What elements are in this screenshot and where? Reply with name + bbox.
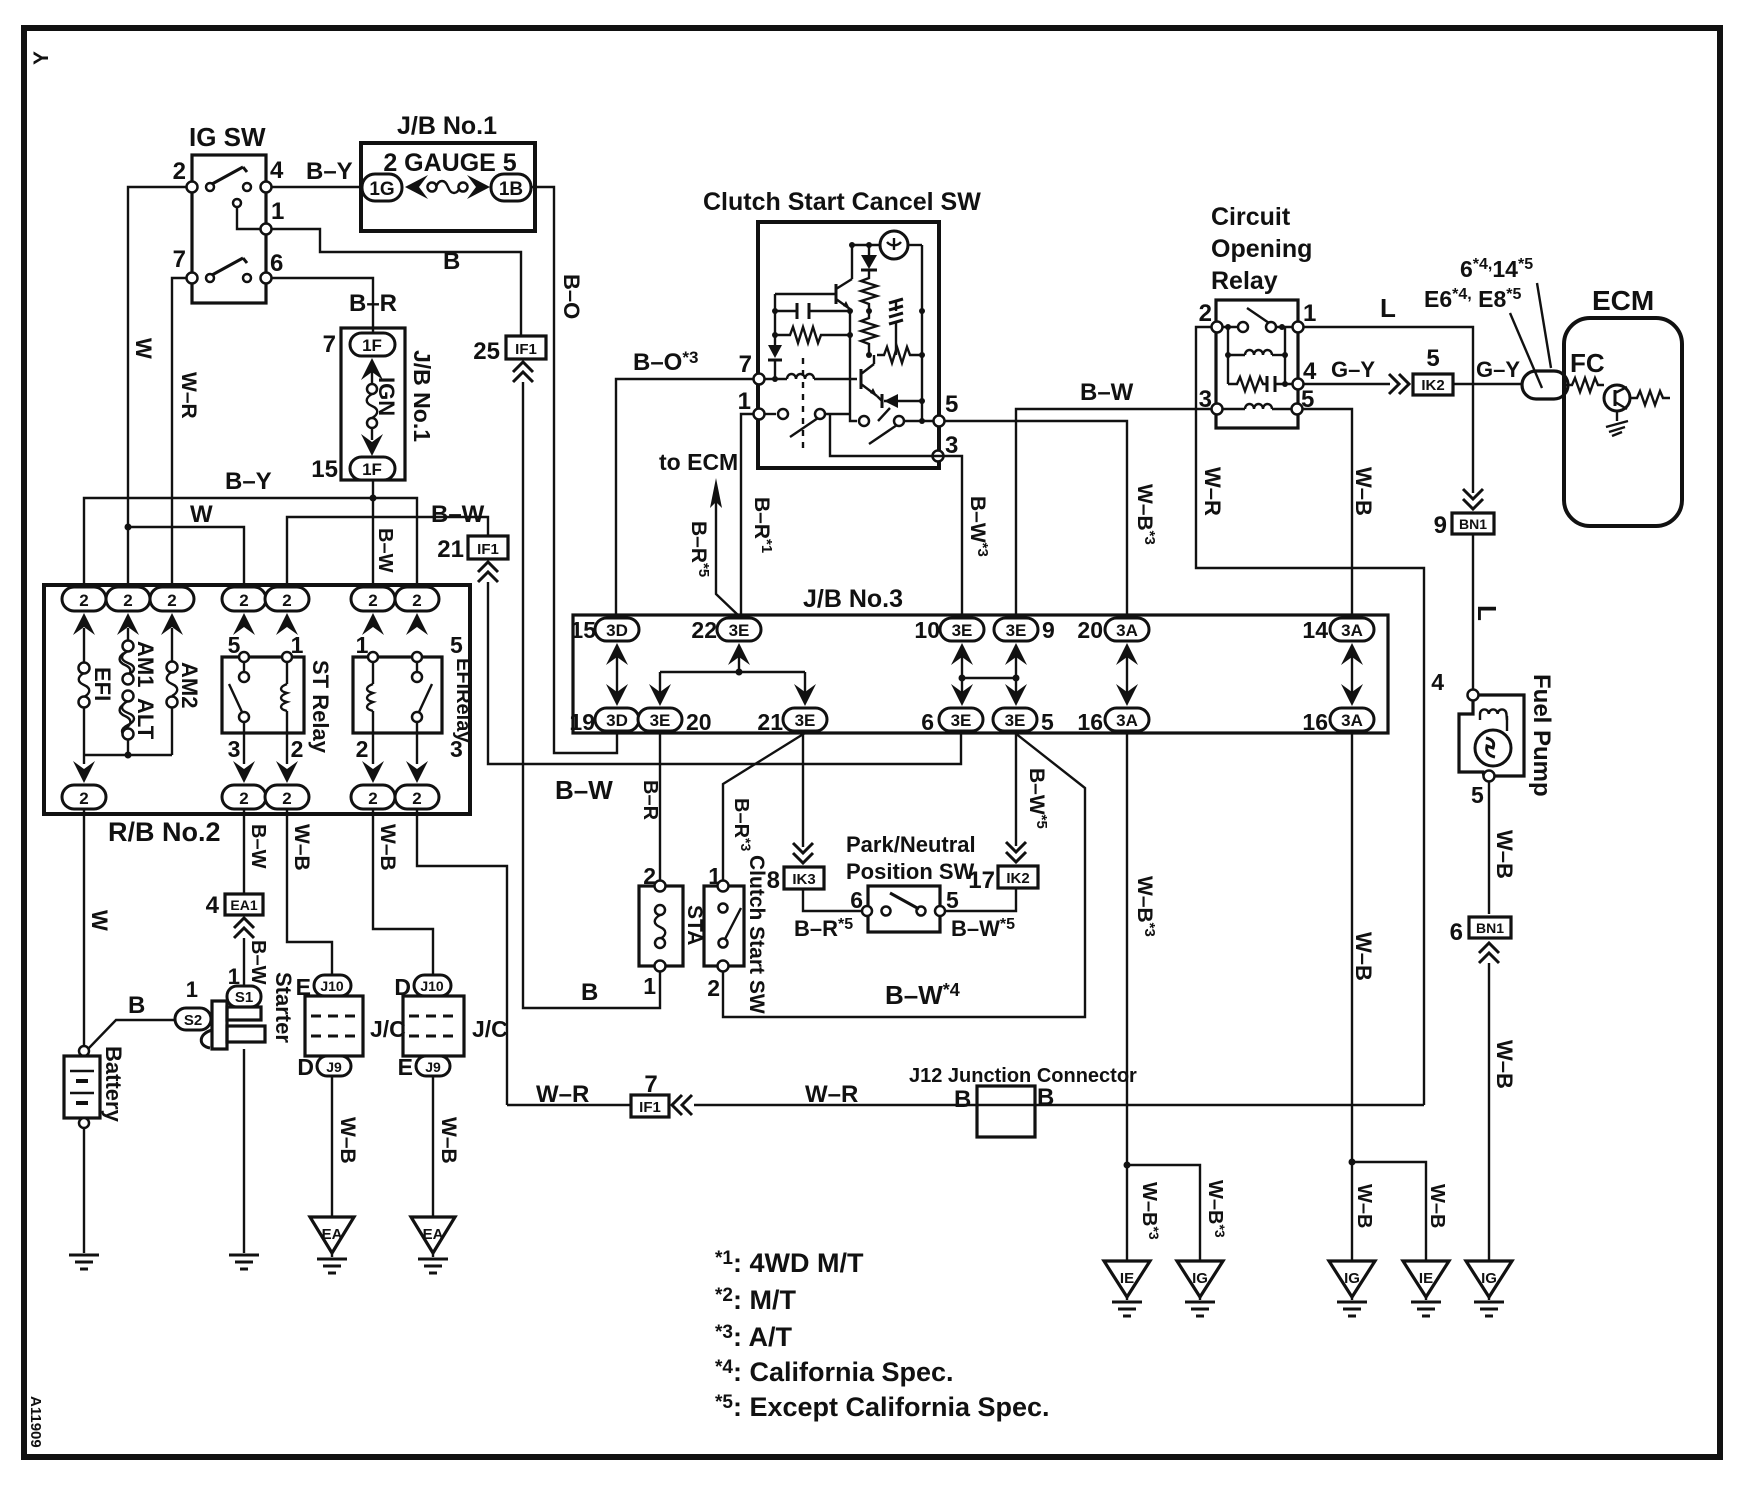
CSC right rail mid link [895, 330, 897, 355]
connector 7 IF1 [631, 1095, 669, 1117]
wire B-W to EA1 [243, 809, 245, 894]
svg-text:9: 9 [1042, 617, 1055, 643]
EFI Relay pin 5 terminal [412, 652, 422, 662]
connector 21 IF1 [468, 536, 508, 559]
svg-text:14: 14 [1302, 617, 1328, 643]
GAUGE fuse left arrow [405, 175, 428, 199]
BN1 9 chevrons [1463, 489, 1483, 509]
CSC hatched resistor [895, 301, 897, 311]
wire W-R from relay pin 2 [1196, 327, 1424, 1105]
CSC capacitor row [775, 310, 797, 312]
connector J10 first [314, 975, 351, 996]
double arrow 20/16 3A [1126, 652, 1128, 697]
fuel pump coil [1480, 709, 1507, 720]
ECM box [1564, 318, 1682, 526]
svg-text:S2: S2 [184, 1012, 202, 1029]
svg-text:1: 1 [356, 632, 369, 658]
ground IG first [1177, 1261, 1223, 1297]
svg-text:21: 21 [757, 709, 783, 735]
STA fuse [655, 905, 665, 915]
ST Relay switch [243, 662, 245, 672]
svg-text:2: 2 [368, 591, 377, 610]
relay pin 4 terminal [1293, 379, 1304, 390]
svg-text:16: 16 [1077, 709, 1103, 735]
svg-text:3E: 3E [795, 711, 816, 730]
svg-text:2: 2 [282, 591, 291, 610]
connector 1F bottom [350, 457, 395, 480]
svg-text:ALT: ALT [133, 698, 158, 740]
svg-text:3E: 3E [1006, 621, 1027, 640]
IK2 5 chevrons [1389, 374, 1409, 394]
svg-text:1: 1 [738, 388, 751, 415]
svg-text:J/B No.1: J/B No.1 [409, 350, 435, 442]
svg-text:FC: FC [1570, 348, 1605, 378]
svg-text:B: B [128, 992, 145, 1019]
connector J9 first [317, 1056, 351, 1076]
R/B connector 2 bottom ST2 [265, 785, 309, 809]
wire B-Y from IG SW pin 4 to J/B No.1 1G [271, 186, 362, 188]
connector BN1 lower [1469, 917, 1511, 938]
wire B from IF1 25 down to STA pin 1 [523, 382, 660, 1008]
IGN fuse arrow down [371, 428, 373, 440]
svg-text:17: 17 [968, 867, 995, 894]
svg-text:4: 4 [1431, 669, 1444, 695]
svg-text:W: W [190, 501, 213, 528]
svg-text:R/B No.2: R/B No.2 [108, 817, 221, 847]
ground IE first [1104, 1261, 1150, 1297]
svg-text:EFI: EFI [90, 667, 115, 701]
R/B connector 2 top EFI1 [351, 587, 395, 611]
wire from IGN 1F to R/B No.2 [372, 480, 374, 587]
svg-text:4: 4 [1303, 358, 1317, 385]
svg-text:16: 16 [1302, 709, 1328, 735]
svg-text:W–B: W–B [376, 824, 399, 871]
arrows down from ST Relay [243, 733, 245, 764]
svg-text:B–Y: B–Y [306, 158, 353, 185]
to ECM arrow [716, 500, 739, 616]
relay coil upper [1227, 327, 1229, 355]
connector J9 second [416, 1056, 450, 1076]
svg-text:BN1: BN1 [1476, 920, 1504, 936]
connector (3E)20 [638, 708, 682, 731]
jumper between 3E columns [962, 677, 1016, 679]
connector 1F top [350, 333, 395, 356]
svg-text:J10: J10 [320, 978, 344, 994]
arrow up into 22(3E) [738, 654, 740, 672]
svg-text:W: W [131, 338, 156, 359]
wire from R/B EFI3 to W-R run [417, 809, 507, 1105]
svg-text:to ECM: to ECM [659, 449, 738, 475]
svg-text:2: 2 [356, 736, 369, 762]
relay coil lower [1221, 408, 1245, 410]
ST Relay pin 1 terminal [282, 652, 292, 662]
ground IG second [1329, 1261, 1375, 1297]
svg-text:Clutch Start Cancel SW: Clutch Start Cancel SW [703, 188, 981, 216]
wire G-Y from relay pin 4 to IK2 [1303, 383, 1390, 385]
junction connector J12 [977, 1086, 1035, 1137]
svg-text:6: 6 [1450, 919, 1463, 946]
IG SW switch AM contacts [206, 183, 214, 191]
svg-text:5: 5 [946, 887, 959, 913]
svg-text:Circuit: Circuit [1211, 203, 1291, 231]
IF1 25 chevrons [513, 362, 533, 382]
W-B ground branch right [1352, 1162, 1426, 1261]
EFI Relay pin 1 terminal [368, 652, 378, 662]
Clutch Start SW contacts [719, 904, 728, 913]
wire B-W from IF1 21 to J/B No.3 6(3E) [488, 582, 961, 764]
svg-text:Fuel Pump: Fuel Pump [1528, 674, 1555, 797]
svg-text:4: 4 [270, 157, 284, 184]
CSC left switch [764, 413, 776, 415]
IG SW pin 7 terminal [187, 273, 198, 284]
junction B-Y / IGN [370, 495, 377, 502]
STA pin 1 terminal [655, 961, 666, 972]
IG SW pin 1 contact [233, 199, 241, 207]
connector (3E)5 [993, 708, 1037, 731]
svg-text:B–W: B–W [374, 528, 396, 573]
svg-text:10: 10 [914, 617, 940, 643]
svg-text:W–B: W–B [437, 1117, 460, 1164]
junction W branch [125, 524, 132, 531]
svg-text:W–B: W–B [1351, 932, 1376, 981]
IGN fuse element [367, 384, 377, 394]
splice oval [1522, 371, 1568, 399]
wire W-B J9 second to EA ground [432, 1076, 434, 1217]
connector 1G [362, 174, 402, 201]
wire from CSC pin 5 to 20(3A) [944, 421, 1127, 618]
svg-text:2: 2 [173, 158, 186, 185]
svg-text:2: 2 [368, 789, 377, 808]
IG SW box [192, 155, 266, 303]
starter terminal S2 [175, 1008, 211, 1030]
wire W-B from R/B to J/C E-J10 [287, 809, 332, 975]
svg-text:IE: IE [1120, 1270, 1134, 1287]
svg-text:3E: 3E [650, 711, 671, 730]
svg-text:2: 2 [412, 591, 421, 610]
CSC Q2 collector link [873, 355, 875, 364]
CSC Q1 collector rail [851, 245, 853, 279]
relay switch [1221, 326, 1238, 328]
IG SW switch AM arm [212, 167, 243, 184]
R/B connector 2 top EFI [62, 587, 106, 611]
svg-text:J9: J9 [425, 1059, 441, 1075]
CSC left rail [774, 294, 776, 345]
svg-text:D: D [297, 1054, 314, 1080]
wire B-R*1 from CSC pin 1 to 22(3E) [741, 414, 753, 618]
wire W-B from R/B to J/C D-J10 [373, 809, 433, 975]
svg-text:1B: 1B [499, 179, 523, 200]
battery top terminal [79, 1046, 89, 1056]
svg-text:2: 2 [167, 591, 176, 610]
svg-text:3A: 3A [1116, 711, 1138, 730]
svg-text:BN1: BN1 [1459, 516, 1487, 532]
fuel pump pin 5 terminal [1484, 771, 1495, 782]
svg-text:Clutch Start SW: Clutch Start SW [745, 855, 768, 1014]
svg-text:EA: EA [423, 1226, 444, 1243]
svg-text:3A: 3A [1341, 711, 1363, 730]
STA pin 2 terminal [655, 881, 666, 892]
svg-text:IGN: IGN [374, 377, 399, 416]
fuse EFI [83, 628, 85, 663]
svg-text:15: 15 [311, 456, 338, 483]
svg-text:6: 6 [270, 250, 283, 277]
CSC right switch [850, 414, 857, 421]
wire L from relay pin 1 to BN1 9 [1303, 327, 1473, 493]
svg-text:3: 3 [228, 736, 241, 762]
svg-text:IE: IE [1419, 1270, 1433, 1287]
svg-text:W–B: W–B [1353, 1184, 1375, 1228]
svg-text:15: 15 [570, 617, 596, 643]
ground IE second [1403, 1261, 1449, 1297]
internal jumper 3E [660, 671, 805, 673]
svg-text:B–R: B–R [349, 290, 397, 317]
svg-text:IG: IG [1481, 1270, 1497, 1287]
svg-text:W: W [87, 910, 112, 931]
svg-text:5: 5 [1471, 782, 1484, 808]
svg-text:3: 3 [1199, 386, 1212, 413]
svg-text:3D: 3D [606, 711, 628, 730]
svg-text:7: 7 [739, 351, 752, 378]
connector EA1 [225, 894, 263, 915]
wire battery to ground [83, 1128, 85, 1253]
wire W-R to IF1 7 [507, 1104, 632, 1106]
wire B-W EA1 to starter [243, 938, 245, 988]
svg-text:2: 2 [412, 789, 421, 808]
CSC coil [764, 378, 787, 380]
svg-text:EFIRelay: EFIRelay [452, 658, 474, 743]
CSC lamp [880, 231, 908, 259]
wire B-O from 1B down to J/B No.3 19(3D) [531, 187, 617, 753]
svg-text:IK3: IK3 [792, 871, 815, 888]
wire starter to ground [243, 1049, 245, 1253]
svg-text:W–B: W–B [1426, 1184, 1448, 1228]
CSC pin 3 terminal [933, 451, 944, 462]
fuse AM2 [171, 628, 173, 662]
double arrow 9/5 3E [1015, 652, 1017, 697]
J/B No.1 IGN box [341, 328, 405, 480]
connector IK2 right [1413, 374, 1453, 395]
Clutch Start SW arm [725, 908, 741, 939]
svg-text:W–R: W–R [177, 372, 200, 419]
CSC pin 7 terminal [754, 374, 765, 385]
junction connector J/C first [305, 996, 363, 1056]
svg-text:3D: 3D [606, 621, 628, 640]
svg-text:G–Y: G–Y [1331, 357, 1375, 382]
CSC dashed linkage [802, 358, 804, 452]
arrows down from EFI Relay [372, 733, 374, 764]
svg-text:3E: 3E [951, 711, 972, 730]
ECM internal ground [1616, 411, 1618, 421]
svg-text:J10: J10 [420, 978, 444, 994]
svg-text:B–Y: B–Y [225, 468, 272, 495]
svg-text:7: 7 [323, 331, 336, 358]
CSC transistor Q1 [835, 284, 838, 304]
svg-text:21: 21 [437, 536, 464, 563]
svg-text:J9: J9 [326, 1059, 342, 1075]
wire B-R*3 from 21(3E) to Clutch Start SW [723, 733, 805, 886]
svg-text:2 GAUGE 5: 2 GAUGE 5 [383, 149, 516, 177]
svg-text:B–W: B–W [1080, 379, 1134, 406]
fuse AM1 ALT [127, 628, 129, 641]
svg-text:9: 9 [1434, 512, 1447, 539]
svg-text:Park/Neutral: Park/Neutral [846, 832, 976, 857]
svg-text:EA1: EA1 [230, 897, 257, 913]
svg-text:IF1: IF1 [515, 341, 537, 358]
svg-text:W–B: W–B [336, 1117, 359, 1164]
svg-text:IG: IG [1344, 1270, 1360, 1287]
svg-text:ST Relay: ST Relay [308, 660, 333, 754]
starter body [212, 1001, 227, 1049]
IGN fuse arrow up [361, 358, 383, 380]
Fuel Pump box [1459, 695, 1524, 776]
R/B connector 2 top EFI5 [395, 587, 439, 611]
svg-text:5: 5 [450, 632, 463, 658]
svg-text:IG: IG [1192, 1270, 1208, 1287]
svg-text:L: L [1472, 605, 1502, 621]
svg-text:B: B [1037, 1084, 1054, 1111]
svg-text:B–W: B–W [431, 501, 485, 528]
GAUGE fuse right arrow [467, 175, 490, 199]
CSC resistor R2 vertical [861, 271, 877, 311]
IG SW pin 4 terminal [261, 182, 272, 193]
IK2 chevrons [1006, 842, 1026, 862]
starter terminal S1 [227, 986, 261, 1007]
svg-text:1G: 1G [369, 179, 394, 200]
svg-text:W–B: W–B [1492, 830, 1517, 879]
R/B connector 2 top ST5 [222, 587, 266, 611]
CSC right rail [921, 245, 923, 421]
R/B connector 2 bottom EFI2 [351, 785, 395, 809]
svg-text:B–O: B–O [559, 274, 584, 319]
IG SW pin 2 terminal [187, 182, 198, 193]
CSC lamp wires [852, 244, 880, 246]
svg-text:J12 Junction Connector: J12 Junction Connector [909, 1065, 1137, 1087]
arrow down into (3E)20 [659, 672, 661, 696]
wire IK3 to P/N SW pin 6 [803, 889, 862, 911]
svg-text:*4: California Spec.: *4: California Spec. [715, 1357, 954, 1387]
svg-text:*1: 4WD M/T: *1: 4WD M/T [715, 1248, 864, 1278]
R/B connector 2 bottom EFI [62, 785, 106, 809]
wire L from BN1 to fuel pump [1472, 534, 1474, 691]
wire G-Y from IK2 to ECM [1453, 383, 1523, 385]
ST Relay box [222, 657, 304, 733]
svg-text:1: 1 [271, 198, 284, 225]
svg-text:2: 2 [1199, 300, 1212, 327]
wire B-W*5 from (3E)5 to IK2 [1015, 733, 1017, 846]
battery box [64, 1056, 100, 1118]
svg-text:2: 2 [291, 736, 304, 762]
Clutch Start SW pin 1 terminal [718, 881, 729, 892]
P/N SW contacts [882, 907, 891, 916]
wire W-B J9 to EA ground [331, 1076, 333, 1217]
svg-text:B–W: B–W [247, 940, 269, 985]
svg-text:B: B [581, 979, 598, 1006]
CSC transistor Q2 [860, 369, 863, 389]
svg-text:B–W: B–W [555, 775, 613, 805]
svg-text:B: B [954, 1086, 971, 1113]
R/B connector 2 top ST1 [265, 587, 309, 611]
fuel pump motor [1475, 730, 1511, 766]
connector J10 second [414, 975, 451, 996]
svg-text:2: 2 [239, 789, 248, 808]
wire W from IG SW pin 2 down to R/B No.2 [128, 187, 187, 587]
wire W-B*3 from 16(3A) to grounds [1126, 733, 1128, 1261]
CSC mid rail [849, 311, 851, 414]
ECM output resistor [1630, 391, 1670, 405]
ground starter [229, 1255, 259, 1269]
wire B battery to starter S2 [88, 1020, 176, 1049]
svg-text:1: 1 [1303, 300, 1316, 327]
svg-text:Starter: Starter [271, 972, 296, 1043]
IK3 chevrons [793, 843, 813, 863]
relay pin 3 terminal [1212, 404, 1223, 415]
wire B-R from (3E)20 to STA [659, 733, 661, 886]
svg-text:J/C: J/C [472, 1016, 508, 1042]
wire W-B to IG ground [1488, 963, 1490, 1261]
svg-text:2: 2 [79, 789, 88, 808]
svg-text:IF1: IF1 [639, 1099, 661, 1116]
svg-text:3E: 3E [952, 621, 973, 640]
CSC SCR [884, 400, 922, 402]
ground IG third [1466, 1261, 1512, 1297]
CSC pin 5 terminal [934, 416, 945, 427]
svg-text:25: 25 [473, 338, 500, 365]
pointer line 2 [1510, 313, 1542, 388]
svg-text:W–B: W–B [1492, 1040, 1517, 1089]
svg-text:ECM: ECM [1592, 285, 1654, 316]
Circuit Opening Relay box [1216, 300, 1298, 428]
wire B-W*3 from CSC pin 3 to 10(3E) [933, 456, 962, 618]
wire B-O*3 from CSC pin 7 to J/B No.3 15(3D) [616, 379, 753, 618]
arrow down into 21(3E) [804, 672, 806, 696]
P/N SW arm [890, 893, 919, 909]
wire B from IG SW pin 1 to IF1 25 [271, 229, 521, 336]
svg-text:IF1: IF1 [477, 541, 499, 558]
EFI Relay box [353, 657, 442, 733]
svg-text:B: B [443, 248, 460, 275]
svg-text:2: 2 [123, 591, 132, 610]
relay resistor capacitor branch [1227, 355, 1229, 384]
relay pin 1 terminal [1293, 322, 1304, 333]
ECM FC resistor [1566, 378, 1604, 392]
svg-text:Position SW: Position SW [846, 859, 975, 884]
GAUGE fuse element [428, 183, 437, 192]
wire W-R from IG SW pin 7 down to R/B No.2 [172, 278, 187, 587]
svg-text:7: 7 [173, 246, 186, 273]
svg-text:E: E [398, 1054, 413, 1080]
fuse bottom tie wire [84, 754, 172, 756]
IF1 7 chevrons [672, 1095, 692, 1115]
svg-text:2: 2 [707, 975, 720, 1001]
connector IK3 [784, 867, 824, 889]
ST Relay pin 5 terminal [239, 652, 249, 662]
svg-text:B–R: B–R [639, 780, 661, 821]
CSC resistor R4 row [877, 347, 922, 363]
svg-text:*5: Except California Spec.: *5: Except California Spec. [715, 1392, 1050, 1422]
BN1 6 chevrons [1479, 943, 1499, 963]
CSC diode chain rail [868, 245, 870, 255]
svg-text:5: 5 [1041, 709, 1054, 735]
double arrow 14/16 3A [1351, 652, 1353, 697]
arrow down to bottom connector EFI [83, 755, 85, 764]
svg-text:3E: 3E [1005, 711, 1026, 730]
ST Relay coil [286, 662, 288, 684]
svg-text:W–R: W–R [1200, 467, 1225, 516]
wire P/N SW pin5 to IK2 [945, 889, 1016, 911]
svg-text:EA: EA [322, 1226, 343, 1243]
R/B connector 2 top AM1 [106, 587, 150, 611]
Park/Neutral Position SW box [868, 886, 940, 932]
